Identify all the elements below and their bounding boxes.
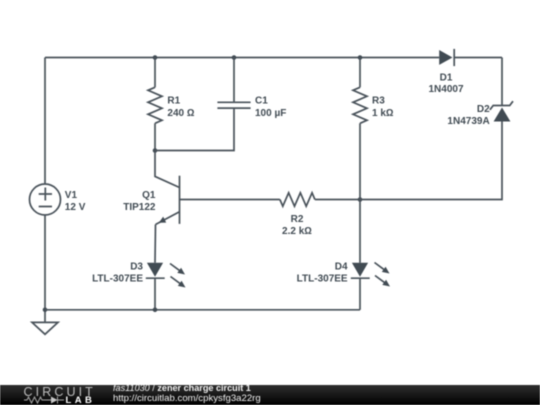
resistor R3 [353,87,367,123]
svg-text:2.2 kΩ: 2.2 kΩ [282,226,312,237]
node R3 top [358,55,363,60]
svg-text:240 Ω: 240 Ω [167,108,194,119]
CircuitLab logo wordmark [24,387,96,397]
wire left rail V1 top [44,58,46,185]
node C1 top [232,55,237,60]
transistor Q1 [155,151,180,225]
node R1 top [153,55,158,60]
wire Q1 emitter to D3 [154,225,157,263]
wire R1 top [154,58,156,88]
zener diode D2 [490,101,513,121]
svg-text:D1: D1 [440,72,453,83]
wire right rail D2 top [501,58,503,106]
node at V1-ground rail junction [43,308,48,313]
wire C1 top [233,58,235,103]
svg-text:D4: D4 [335,261,348,272]
wire left rail V1 bottom to ground [44,215,46,322]
svg-text:Q1: Q1 [142,190,156,201]
node R2-R3-D4 junction [358,197,363,202]
svg-text:R3: R3 [372,96,385,107]
wire top rail right of D1 [454,57,502,59]
svg-text:C1: C1 [255,96,268,107]
svg-text:LTL-307EE: LTL-307EE [297,273,348,284]
wire R3 bottom to node [359,123,361,199]
node R1-C1-Q1 junction [153,148,158,153]
LED D4 [351,263,390,287]
svg-text:R2: R2 [291,214,304,225]
wire bottom rail [45,309,360,311]
wire R2 to node [315,199,360,201]
wire D4 to bottom rail [359,278,361,310]
svg-text:D3: D3 [130,261,143,272]
svg-text:TIP122: TIP122 [123,202,156,213]
wire node to D4 [359,200,361,263]
svg-text:V1: V1 [65,190,78,201]
footer bar [0,385,540,405]
svg-text:100 µF: 100 µF [255,108,286,119]
svg-text:R1: R1 [167,96,180,107]
wire Q1 base to R2 [180,199,280,201]
wire R3 top [359,58,361,88]
wire R1 bottom [154,123,156,150]
capacitor C1 [217,102,250,108]
wire C1 bottom [155,108,234,150]
svg-text:1N4739A: 1N4739A [447,116,489,127]
svg-text:1 kΩ: 1 kΩ [372,108,394,119]
wire top rail [45,57,439,59]
footer title text [113,384,251,393]
svg-text:D2: D2 [477,104,490,115]
ground [32,322,58,334]
diode D1 [439,49,454,66]
node D3 bottom rail junction [153,308,158,313]
resistor R2 [280,193,315,206]
wire D2 bottom to R2 node [360,122,502,200]
LED D3 [146,263,186,288]
CircuitLab logo circuit glyph [20,395,70,405]
svg-text:12 V: 12 V [65,202,86,213]
svg-text:1N4007: 1N4007 [428,84,463,95]
svg-text:LTL-307EE: LTL-307EE [92,274,143,285]
voltage source V1 [30,184,61,215]
resistor R1 [148,87,162,123]
wire D3 to bottom rail [154,278,156,310]
